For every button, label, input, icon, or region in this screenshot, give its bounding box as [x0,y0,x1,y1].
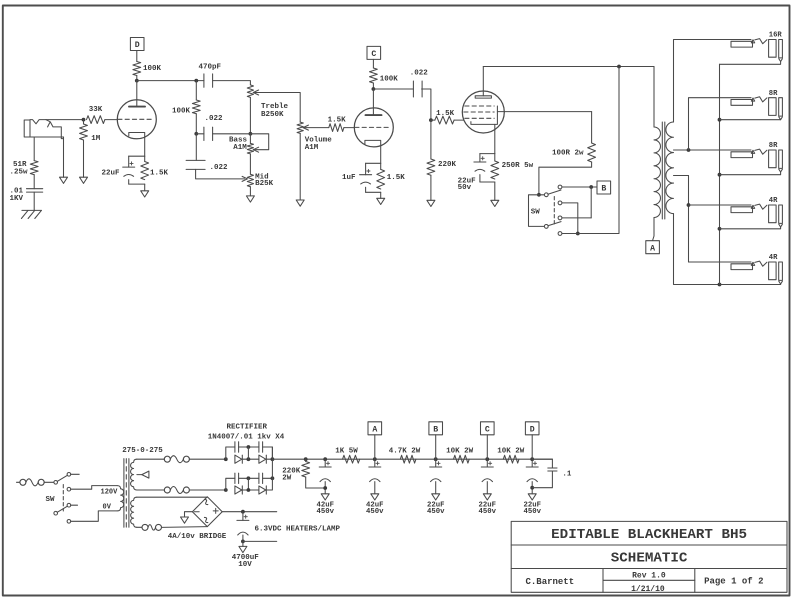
wire 6.3V top to bridge [137,496,208,498]
svg-text:100K: 100K [380,75,399,83]
switch blade pivot 2 [544,225,548,229]
wire 4700uF bottom [242,535,244,541]
svg-text:1N4007/.01 1kv X4: 1N4007/.01 1kv X4 [208,433,285,441]
V2 grid row 1 (dashed) [465,105,494,107]
V2 cathode [471,106,498,124]
wire HV top to rectifier [189,458,225,460]
capacitor 22uF 50v (V2 cathode) [474,161,486,163]
wire .022 to bass node [196,133,204,135]
svg-text:C: C [371,50,376,59]
node contact4 line dot [576,232,580,236]
node rect cap bottom dot [247,476,251,480]
mains switch gang (dashed) [62,485,64,512]
PT HV center tap arrow [137,474,142,476]
svg-text:275-0-275: 275-0-275 [122,447,163,455]
node bus dot jack4 [718,227,722,231]
mains switch blade 1 [57,475,67,481]
node V2 cathode tee [480,153,495,155]
wire tone left leg [195,134,197,161]
bridge AC mark bottom [203,517,210,524]
wire node D up [531,435,533,459]
node B rail dot [434,457,438,461]
capacitor 42uF 450v (node A) [374,459,376,467]
switch contact 3 [558,216,562,220]
capacitor .022 (coupling) [412,81,414,97]
wire 250R top [494,154,496,161]
svg-text:10V: 10V [238,561,252,569]
switch blade 1 [548,190,561,194]
mains switch contact 1a stub [71,473,80,475]
node grid junction dot [82,118,86,122]
PT HV secondary coil [131,459,137,490]
node tone mid-right dot [249,132,253,136]
mains connector pin 1 [20,479,26,485]
wire V2 screen to 100R [497,111,591,113]
wire D1-D2 [242,458,259,460]
V1a plate bar [129,106,145,108]
mains connector pin 2 [38,479,44,485]
PT core line 3 [128,459,130,528]
capacitor 22uF 450v (node D) [531,459,533,467]
node rect out dot [271,457,275,461]
resistor 100K (tone slope) [192,100,200,114]
wire filter4 bottom [486,482,488,494]
PT core line 1 [123,459,125,528]
ground (input jack sleeve) [60,177,68,183]
diode D3 (HV-) [235,486,242,494]
wire mid to ground [249,187,251,196]
wire C2 right [263,447,273,459]
wire plate node down to V1a plate [136,81,138,107]
node plate line junction [617,65,621,69]
V1b plate bar [366,114,382,116]
wire 4700uF gnd lead [242,541,244,546]
LT connector wave [148,525,156,531]
node 8R tap dot [687,148,691,152]
bass wiper loop [250,134,268,150]
wire input jack sleeve to ground [63,137,65,177]
svg-text:A1M: A1M [305,144,319,152]
B+ rail [272,458,552,460]
HV connector pin 4 [183,487,189,493]
svg-text:1uF: 1uF [342,174,356,182]
rect riser bottom-left [226,478,235,490]
wire contact4 to plate line [562,67,619,234]
wire 1.5K to pentode grid [454,119,464,121]
wire switch to PT primary bottom [71,511,118,521]
net box A (OT primary) [646,241,660,254]
node rect mid dot [247,457,251,461]
mains switch contact 1b [67,487,71,491]
ground (V1b cathode) [377,198,385,204]
wire V2 cathode to ground [494,182,496,200]
svg-text:250R 5w: 250R 5w [502,162,534,170]
wire cathode to ground [144,184,146,191]
mains switch contact 1a [67,473,71,477]
node power grid junction [429,118,433,122]
ground (filter3) [432,494,440,500]
svg-text:33K: 33K [89,106,103,114]
resistor 100K (V1b plate load) [370,68,378,83]
wire jack sleeve to R 51R [33,137,35,161]
V2 grid row 2 (dashed) [464,111,494,113]
svg-text:10K 2W: 10K 2W [497,448,525,456]
wire bass to mid [249,154,251,174]
net box C [367,46,381,59]
wire D box to 100K [136,51,138,62]
speaker jack 4R upper [731,207,753,213]
resistor 220K 2W (bleeder) [302,462,310,478]
wire C4 right [263,477,273,479]
wire tee to 22uF 50v [479,154,481,162]
capacitor rect C4 [258,473,260,483]
svg-text:.1: .1 [562,470,572,478]
wire 100R to switch [539,162,592,195]
wire C3-C4 [239,477,259,479]
ground (filter5) [528,494,536,500]
output transformer primary coil [654,127,660,218]
svg-text:450v: 450v [479,508,497,516]
V2 grid row 3 (dashed) [465,117,494,119]
net box D (plate supply) [130,38,144,51]
wire bridge plus rail [222,511,277,513]
switch contact 1 [558,185,562,189]
svg-text:4R: 4R [769,254,778,262]
node A rail dot [373,457,377,461]
wire node B up [435,435,437,459]
wire OT secondary top to 16R jack [674,40,752,123]
V1b grid (dashed) [355,126,391,128]
capacitor .1 [548,467,557,469]
wire 220K leads [305,459,307,461]
svg-text:B: B [601,185,606,194]
OT core line 2 [664,122,666,219]
svg-text:EDITABLE BLACKHEART BH5: EDITABLE BLACKHEART BH5 [551,527,747,543]
svg-text:1.5K: 1.5K [150,170,169,178]
capacitor 22uF 450v (node C) [486,459,488,467]
svg-text:6.3VDC HEATERS/LAMP: 6.3VDC HEATERS/LAMP [255,526,341,534]
ground (1M) [80,177,88,183]
speaker return bus [719,64,721,284]
svg-text:4.7K 2W: 4.7K 2W [389,448,421,456]
node bus dot jack2 [718,118,722,122]
input jack J1 (guitar input) [24,120,30,137]
wire V2 plate to OT primary [483,66,654,68]
bridge rectifier diamond [192,497,222,527]
PT core line 2 (dashed) [125,459,127,528]
wire bass top [249,134,251,144]
node rect right mid dot [271,476,275,480]
speaker jack 16R [731,41,753,47]
svg-text:1KV: 1KV [10,195,24,203]
svg-text:1.5K: 1.5K [387,174,406,182]
resistor 220K (grid leak) [427,159,435,175]
wire 470pF to treble [213,81,251,85]
wire 6.3V bottom lead [137,526,142,528]
resistor 250R 5w (V2 cathode) [491,161,499,179]
wire coupling to grid node [422,89,431,120]
wire B node down [590,187,592,218]
wire 1.5K V1b top [380,163,382,169]
svg-text:C.Barnett: C.Barnett [526,577,575,587]
wire treble wiper to volume [253,93,300,123]
mains switch pivot 2 [54,511,58,515]
resistor 100K (V1a plate load) [133,62,141,76]
V2 plate bar [475,96,491,98]
switch blade pivot 1 [544,193,548,197]
title row divider 2 [511,568,787,570]
wire 4R tap [674,175,689,177]
wire .01 to earth [33,192,35,210]
LT connector pin 1 [142,524,148,530]
wire V1b plate to coupling cap [373,88,413,90]
svg-text:A1M: A1M [233,144,247,152]
svg-text:470pF: 470pF [199,64,222,72]
wire D4 to riser [266,447,272,490]
wire filter2 bottom [374,482,376,494]
node filter1 return dot [323,486,327,490]
wire node C up [486,435,488,459]
wire C1-C2 [239,446,259,448]
wire .1 return [532,471,552,488]
switch contact 4 [558,232,562,236]
wire 100R top [591,112,593,143]
svg-text:A: A [372,425,377,434]
wire 8R jack2 riser [689,98,752,150]
wire V1a cathode tee [129,155,145,157]
wire treble bottom [249,97,251,133]
switch contact 2 [558,201,562,205]
wire plate node to V1b [372,89,374,115]
triode V1b envelope [354,108,393,147]
capacitor rect C2 [258,442,260,452]
svg-text:22uF: 22uF [102,170,121,178]
svg-text:B: B [433,425,438,434]
speaker jack 8R lower [731,152,753,158]
resistor 33K [87,116,105,124]
output transformer secondary coil [666,122,674,214]
mains connector wave [26,479,38,486]
wire 4R riser [688,176,690,263]
svg-text:.022: .022 [210,164,229,172]
wire node A up [374,435,376,459]
wire slope top [195,81,197,100]
node V1b plate junction [372,87,376,91]
node bus dot jack3 [718,173,722,177]
resistor 1K 5W [343,455,360,463]
capacitor rect C1 [234,442,236,452]
wire grid node to 220K [430,120,432,159]
wire 4R to jack4 [689,204,752,206]
svg-text:1K 5W: 1K 5W [335,448,358,456]
wire 4R to jack5 [689,261,752,263]
ground (filter2) [371,494,379,500]
svg-text:10K 2W: 10K 2W [446,448,474,456]
wire HV bottom lead [137,489,165,491]
LT connector pin 2 [156,524,162,530]
capacitor 470pF [203,74,205,87]
wire D2 out [266,458,272,460]
svg-text:Page 1 of 2: Page 1 of 2 [704,577,763,587]
svg-text:2W: 2W [282,475,292,483]
wire grid node to 1.5K [431,119,435,121]
wire HV top lead [137,458,165,460]
net box B (near switch) [597,181,611,194]
resistor 1.5K (power grid stopper) [435,116,454,124]
svg-text:.022: .022 [410,70,429,78]
capacitor 42uF 450v (first filter) [324,459,326,467]
svg-text:50v: 50v [458,184,472,192]
wire 22uF to bottom rail [128,180,130,184]
node D rail dot [530,457,534,461]
volume wiper arrow [303,125,308,130]
mains switch contact 2a stub [71,504,78,506]
svg-text:450v: 450v [427,508,445,516]
svg-text:220K: 220K [438,161,457,169]
HV connector pin 3 [164,487,170,493]
resistor 10K 2W (second) [503,455,519,463]
wire B node to box [591,186,597,188]
wire filter1 bottom [324,482,326,494]
mains lead [17,481,20,483]
node filter1 dot [323,457,327,461]
wire V2 plate lead [482,67,484,96]
svg-text:.022: .022 [205,115,224,123]
wire 1M to ground [83,140,85,177]
resistor 10K 2W (first) [454,455,470,463]
svg-text:SCHEMATIC: SCHEMATIC [611,550,688,566]
resistor 100R 2w (feedback) [588,143,596,162]
HV connector pin 1 [164,456,170,462]
HV connector wave [170,456,183,463]
node rect top-left dot [224,457,228,461]
resistor 1.5K (V1b cathode) [377,169,385,189]
wire OT primary top [653,67,655,128]
node B junction dot [589,185,593,189]
bridge plus sign [213,510,218,512]
ground (filter4) [483,494,491,500]
wire 100K to plate node [136,76,138,81]
mains switch blade 2 [57,506,67,512]
wire filter5 bottom [531,482,533,494]
svg-text:D: D [135,41,140,50]
V1a cathode [129,133,145,157]
wire OT primary bottom [653,218,654,241]
svg-text:8R: 8R [769,90,778,98]
svg-text:100K: 100K [143,65,162,73]
wire switch to PT primary top [71,486,118,490]
speaker jack 8R upper [731,100,753,106]
net box C (PSU) [481,422,495,435]
rect riser top-left [226,447,235,459]
mains switch pivot 1 [54,481,58,485]
wire HV bottom to rectifier [189,489,225,491]
wire 8R tap [674,149,752,151]
net box D (PSU) [525,422,539,435]
svg-text:4R: 4R [769,197,778,205]
mains switch contact 2b [67,520,71,524]
wire .022 mid to wiper [196,169,245,179]
wire filter3 bottom [435,482,437,494]
node secondary return dot [718,283,722,287]
wire volume wiper [303,127,329,129]
diode D2 (HV+) [259,455,266,463]
svg-text:1.5K: 1.5K [436,110,455,118]
svg-text:RECTIFIER: RECTIFIER [227,423,268,431]
wire 33K to V1a grid [105,119,117,121]
svg-text:16R: 16R [769,32,783,40]
svg-text:1/21/10: 1/21/10 [631,585,665,594]
svg-text:.01: .01 [10,187,24,195]
switch SW box [529,195,545,227]
wire 22uF 50v bottom [479,175,481,182]
wire tee to 22uF [128,156,130,167]
net box A (PSU) [368,422,382,435]
svg-text:B250K: B250K [261,111,284,119]
svg-text:120V: 120V [101,488,119,496]
resistor 1M [80,124,88,140]
node rect bottom-left dot [224,488,228,492]
node rect cap top dot [247,445,251,449]
ground (4700uF) [239,546,247,552]
node V1a plate junction [135,79,139,83]
svg-text:100R 2w: 100R 2w [552,150,584,158]
bridge minus sign [194,511,199,513]
HV connector wave 2 [170,487,183,494]
potentiometer Treble B250K [247,85,253,98]
switch gang link (dashed) [553,197,555,225]
wire tee to 1uF [365,163,367,174]
svg-text:Rev 1.0: Rev 1.0 [632,571,666,580]
capacitor .022 (bass) [203,127,205,140]
PT 6.3V winding coil [131,497,137,527]
svg-text:A: A [650,244,655,253]
HV connector pin 2 [183,456,189,462]
V1b cathode [365,140,381,163]
svg-text:SW: SW [46,496,56,504]
potentiometer Mid B25K [247,174,253,187]
svg-text:Treble: Treble [261,103,289,111]
title rev divider [603,579,695,581]
title block outer box [511,521,787,592]
title col divider 2 [694,569,696,593]
wire 220K to ground [430,175,432,200]
switch blade 2 [548,222,561,226]
wire contact2 [562,203,578,234]
wire contact1 to B [562,186,591,188]
svg-text:B25K: B25K [255,180,274,188]
capacitor 4700uF 10V [242,512,244,521]
mains switch contact 2a [67,503,71,507]
wire volume to ground [299,133,301,200]
svg-text:D: D [530,425,535,434]
treble wiper arrow [253,90,258,95]
node switch blade junction [537,193,541,197]
title row divider 1 [511,544,787,546]
capacitor 22uF (V1a cathode bypass) [123,166,135,168]
resistor 51R .25w [30,161,38,175]
capacitor rect C3 [234,473,236,483]
wire D3-D4 [242,489,259,491]
capacitor .01 1KV [27,188,43,190]
svg-text:8R: 8R [769,142,778,150]
svg-text:450v: 450v [316,508,334,516]
wire V1a plate to tone stack [137,80,204,82]
bridge AC mark top [203,499,210,506]
svg-text:1M: 1M [91,135,101,143]
resistor 4.7K 2W [400,455,416,463]
title col divider 1 [602,569,604,593]
